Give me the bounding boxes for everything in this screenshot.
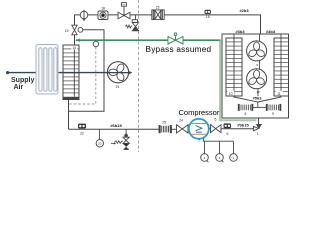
coil junction V pipes	[234, 97, 258, 102]
green valve 20 on bypass	[168, 33, 183, 44]
fan feed wire	[258, 34, 260, 108]
svg-text:10: 10	[229, 92, 233, 96]
bottom main line	[69, 128, 160, 130]
supply air duct line	[7, 72, 129, 74]
condenser coil 10	[226, 34, 242, 96]
svg-text:1: 1	[257, 132, 259, 136]
sight glass 6	[224, 123, 232, 128]
condenser unit box	[222, 34, 289, 118]
svg-text:16: 16	[206, 15, 210, 19]
TXV expansion valve below line	[125, 129, 127, 134]
finned tube 25	[159, 126, 171, 133]
wire between 8 and 9	[253, 106, 266, 108]
svg-text:#9b15: #9b15	[237, 123, 249, 128]
svg-text:#5b3: #5b3	[253, 97, 262, 101]
sight glass 22	[78, 124, 86, 129]
relief valve below top line	[132, 15, 139, 31]
compressor 7	[189, 119, 209, 139]
dashed signal line vertical	[138, 0, 140, 152]
svg-text:Bypass assumed: Bypass assumed	[146, 45, 212, 54]
bypass enclosed pale green area	[220, 40, 257, 120]
svg-text:15: 15	[156, 6, 160, 10]
svg-text:19: 19	[65, 29, 69, 33]
gauge sensor on bypass	[69, 47, 96, 104]
three-way valve 19	[72, 25, 83, 35]
svg-text:5: 5	[215, 117, 217, 121]
svg-text:12: 12	[256, 90, 260, 94]
svg-text:7: 7	[198, 139, 200, 143]
svg-text:#3b3: #3b3	[235, 29, 245, 34]
svg-text:Compressor: Compressor	[179, 108, 220, 117]
sensor bus below compressor	[201, 139, 238, 163]
wire valve19 to coil	[74, 35, 76, 45]
svg-text:20: 20	[98, 142, 102, 146]
wire coil outlet down	[68, 100, 70, 130]
wire top main line y=14.5	[75, 15, 261, 34]
condenser coil 11	[274, 34, 289, 96]
finned tube 9	[266, 104, 281, 110]
gauge 20 below line	[98, 129, 100, 139]
fan 12 lower	[247, 69, 267, 89]
svg-text:#4b3: #4b3	[266, 29, 276, 34]
svg-text:22: 22	[80, 132, 84, 136]
svg-text:14: 14	[72, 46, 76, 50]
svg-text:21: 21	[116, 85, 120, 89]
wire valve19 actuator bypass loop	[69, 30, 105, 112]
fan 6 upper	[247, 41, 267, 61]
svg-text:25: 25	[162, 120, 166, 124]
svg-text:#2b3: #2b3	[239, 8, 249, 13]
expansion valve 1	[258, 107, 260, 124]
spring + arrow of TXV	[111, 141, 123, 144]
valve 24	[177, 125, 189, 133]
finned tube 8	[238, 104, 253, 110]
sight glass CO symbol top right	[205, 10, 211, 14]
filter/sight glass on top line	[152, 10, 164, 20]
svg-text:Air: Air	[14, 84, 24, 91]
green bypass line	[76, 40, 257, 120]
check/flow indicator on top line	[80, 10, 88, 19]
valve 5	[211, 125, 222, 133]
motorized valve on top line	[118, 3, 130, 19]
svg-text:11: 11	[277, 92, 281, 96]
coil 14	[63, 45, 79, 100]
svg-text:8: 8	[245, 112, 247, 116]
svg-text:24: 24	[179, 119, 183, 123]
pump U18	[98, 11, 108, 20]
svg-text:#6b15: #6b15	[110, 123, 122, 128]
serpentine heating coil	[36, 45, 58, 95]
svg-text:6: 6	[256, 63, 258, 67]
svg-text:18: 18	[101, 7, 105, 11]
fan 21	[107, 62, 128, 83]
svg-text:6: 6	[226, 132, 228, 136]
svg-text:9: 9	[272, 112, 274, 116]
